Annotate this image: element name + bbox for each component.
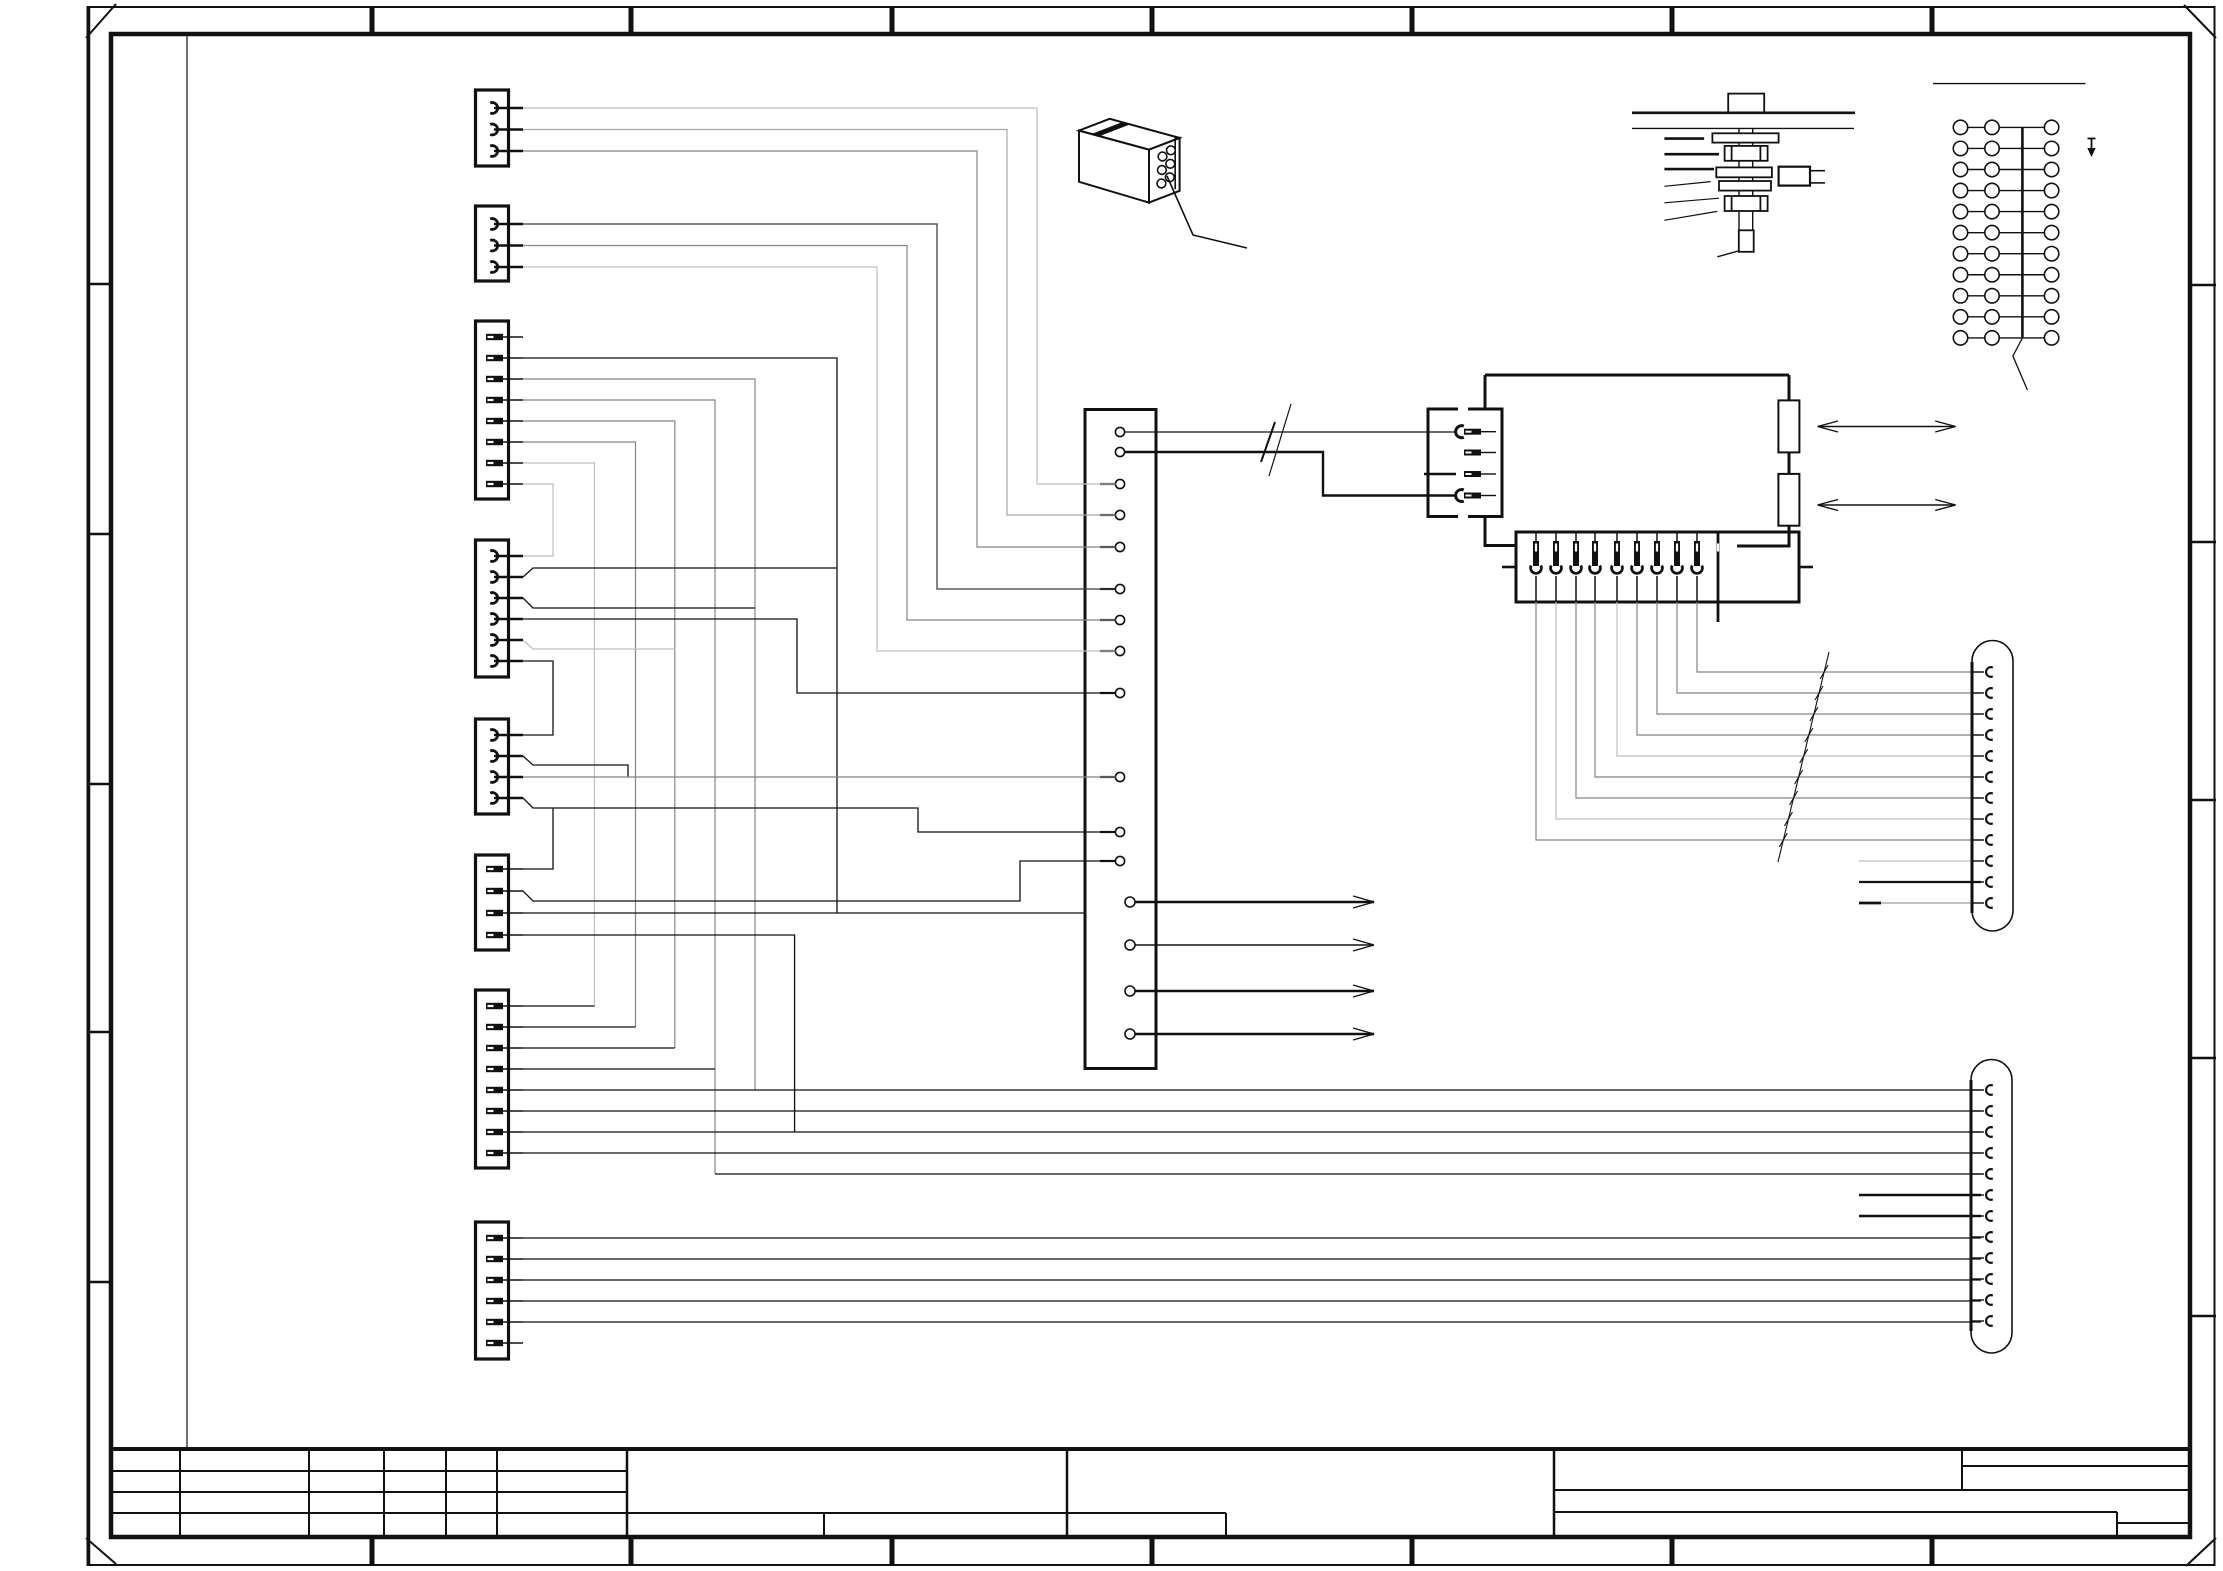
terminal strip label underline xyxy=(1933,83,2086,85)
antenna mount stack xyxy=(1712,128,1778,251)
title block grid xyxy=(111,1449,2190,1537)
antenna callout lines xyxy=(1664,139,1719,221)
module bottom connector X-A2 shell xyxy=(1516,532,1799,602)
left edge centring ticks xyxy=(87,284,111,1282)
terminal strip leader line xyxy=(2013,338,2028,390)
wires mid runs to connector X10 xyxy=(715,1174,1981,1216)
wires into connector X11 rows 10-12 xyxy=(1859,861,1981,903)
left filing margin line xyxy=(186,34,188,1449)
wires X1 to junction rows 3-5 xyxy=(523,108,1116,547)
wire junction row1 to module pin1 xyxy=(1125,431,1457,433)
wires X4 jogs and links xyxy=(523,568,1116,735)
module series element R1 xyxy=(1778,400,1799,452)
wires X3 drop verticals xyxy=(523,358,837,1174)
connector X11 (12-pin) xyxy=(1972,641,2013,932)
connector X7 (8-pin blade) xyxy=(476,990,524,1168)
bottom edge centring ticks xyxy=(372,1537,1932,1566)
terminal strip 3x11 grid xyxy=(1953,120,2059,345)
module series element R2 xyxy=(1778,474,1799,526)
wires X2 to junction rows 6-8 xyxy=(523,224,1116,651)
wire junction row2 to module pin4 (stepped) xyxy=(1125,452,1457,496)
ground reference arrow xyxy=(2087,139,2095,158)
relay K1 leader line xyxy=(1167,176,1247,248)
module A1 outline xyxy=(1485,375,1789,546)
module connector X-A1 pins xyxy=(1424,426,1496,502)
antenna base and panel section xyxy=(1632,94,1855,129)
connector X2 (3-pin socket) xyxy=(476,206,524,281)
relay K1 (3D box) xyxy=(1079,119,1180,203)
corner fold mark bottom-right xyxy=(2186,1538,2216,1566)
wires X7 long runs to connector X10 xyxy=(523,1006,1981,1153)
antenna leader line xyxy=(1717,251,1738,257)
connector X1 (3-pin socket) xyxy=(476,90,524,166)
junction strip X9 body xyxy=(1085,410,1156,1069)
connector X10 (12-pin) xyxy=(1971,1060,2012,1354)
antenna cable clamp xyxy=(1779,167,1825,186)
bidirectional bus arrow lower xyxy=(1818,500,1956,511)
module outline bottom-right corner xyxy=(1737,532,1789,546)
wire fan module to connector X11 xyxy=(1536,602,1981,840)
wires X8 long runs to connector X10 xyxy=(523,1238,1981,1322)
corner fold mark bottom-left xyxy=(86,1538,116,1564)
harness bundle mark on fan xyxy=(1778,652,1829,862)
corner fold mark top-right xyxy=(2184,5,2216,38)
module bottom connector pins xyxy=(1502,533,1813,622)
relay K1 socket holes xyxy=(1157,146,1175,188)
connector X5 (4-pin socket) xyxy=(476,719,524,814)
connector X6 (4-pin blade) xyxy=(476,855,524,950)
junction strip X9 terminals xyxy=(1100,427,1135,1039)
harness slash marks on module feed pair xyxy=(1261,404,1291,476)
bidirectional bus arrow upper xyxy=(1818,421,1956,432)
connector X4 (6-pin socket) xyxy=(476,540,524,677)
module connector X-A1 shell xyxy=(1428,405,1502,521)
junction strip output arrows xyxy=(1135,896,1374,1040)
wires X6 to junction row 12 xyxy=(523,861,1116,1132)
corner fold mark top-left xyxy=(86,4,116,38)
connector X8 (6-pin blade) xyxy=(476,1222,524,1359)
connector X3 (8-pin blade) xyxy=(476,321,524,499)
wires X5 to junction rows 10-11 xyxy=(523,756,1116,869)
right edge centring ticks xyxy=(2190,285,2216,1316)
top edge centring ticks xyxy=(372,7,1932,34)
